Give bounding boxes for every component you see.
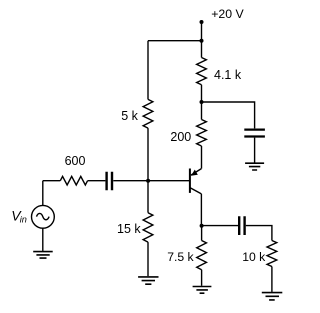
transistor Q1 emitter arrow: [191, 170, 198, 176]
ground 15k: [138, 277, 158, 284]
resistor 7.5k: [197, 241, 207, 270]
resistor 600: [60, 176, 87, 185]
wire collector down: [200, 194, 202, 226]
ground bypass: [245, 163, 264, 170]
svg-text:5 k: 5 k: [121, 109, 138, 123]
wire supply vertical: [201, 22, 203, 58]
transistor Q1 collector diagonal: [190, 188, 202, 194]
wire Vin top: [42, 181, 44, 206]
wire 5k bottom to base junction to 15k: [147, 128, 149, 213]
node base junction dot: [146, 179, 150, 183]
svg-text:+20 V: +20 V: [211, 7, 244, 21]
node +20V terminal dot: [200, 20, 204, 24]
wire junction to bypass cap branch: [202, 102, 255, 128]
svg-text:15 k: 15 k: [117, 222, 141, 236]
svg-text:600: 600: [65, 154, 86, 168]
wire top horizontal to 5k branch: [148, 40, 202, 42]
capacitor input plates: [107, 172, 112, 191]
wire left branch down to 5k: [147, 41, 149, 100]
svg-text:10 k: 10 k: [242, 250, 266, 264]
svg-text:200: 200: [170, 130, 191, 144]
ground 10k: [262, 293, 283, 300]
wire base: [148, 180, 190, 182]
node emitter output junction dot: [200, 224, 204, 228]
wire 10k to ground: [271, 267, 273, 292]
wire junction to output cap: [202, 225, 238, 227]
wire input horizontal: [43, 180, 148, 182]
capacitor bypass plates: [244, 130, 265, 137]
wire 15k to ground: [147, 242, 149, 276]
svg-text:7.5 k: 7.5 k: [167, 250, 194, 264]
wire Vin bottom: [42, 228, 44, 251]
source Vin circle: [32, 205, 55, 228]
resistor 200: [197, 120, 207, 147]
transistor Q1 base bar: [189, 169, 191, 193]
resistor 15k: [143, 213, 153, 242]
resistor 4.1k: [197, 58, 207, 85]
svg-text:4.1 k: 4.1 k: [214, 68, 242, 82]
wire 7.5k to ground: [201, 270, 203, 286]
wire 4.1k bottom to 200 top: [201, 85, 203, 120]
ground 7.5k: [193, 287, 212, 294]
transistor Q1 emitter diagonal: [191, 169, 201, 176]
ground Vin: [33, 252, 53, 259]
capacitor output plates: [239, 216, 244, 235]
svg-text:in: in: [20, 215, 27, 225]
resistor 10k: [267, 241, 277, 267]
wire junction down to 7.5k: [201, 226, 203, 241]
wire bypass cap to ground: [254, 138, 256, 163]
wire output cap to 10k: [246, 226, 272, 241]
resistor 5k: [143, 99, 153, 128]
node collector-supply junction dot: [200, 100, 204, 104]
node junction dot supply/5k: [200, 39, 204, 43]
wire 200 bottom to emitter: [201, 146, 203, 169]
source Vin sine: [37, 213, 50, 219]
